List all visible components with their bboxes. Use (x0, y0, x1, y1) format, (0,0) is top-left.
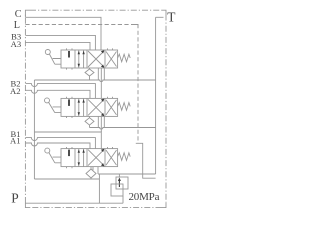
node T label (167, 10, 175, 25)
svg-text:A1: A1 (10, 136, 21, 146)
valve V3 cell1 bar (68, 51, 70, 58)
wire L drain to tank collector (136, 143, 156, 178)
wire valve1 to valve2 feed (100, 68, 102, 98)
wire A2 (hops over riser) (25, 90, 90, 98)
valve V1 cell3 crossed arrows (88, 150, 104, 166)
node C label (15, 9, 22, 20)
svg-text:A2: A2 (10, 86, 21, 96)
wire valve3 to check valve (90, 167, 92, 169)
valve V3 cell2 arrows (79, 50, 84, 68)
valve V1 cell dividers (75, 149, 105, 167)
valve V3 cell dividers (75, 50, 105, 68)
wire C line (25, 17, 101, 50)
wire step between tank bus levels (98, 174, 100, 179)
svg-text:L: L (14, 20, 20, 31)
wire check valve 3 bottom stub (90, 178, 92, 179)
value label 20MPa (129, 191, 160, 203)
wire B3 (25, 35, 95, 50)
valve V3 cell4 crossed lines (106, 52, 117, 67)
wire bottom tank bus to T (98, 173, 156, 175)
valve V1 cell1 bar (68, 150, 70, 157)
wire T stub (156, 16, 164, 18)
node B1 label (10, 129, 20, 139)
valve V2 cell2 arrows (79, 98, 84, 116)
enclosure boundary (dash-dot frame) (25, 10, 166, 207)
svg-text:A3: A3 (11, 39, 22, 49)
node P label (11, 190, 18, 205)
wire relief valve outlet to tank bus (118, 174, 120, 177)
wire valve2 to check valve (89, 116, 91, 127)
valve V2 port ticks (67, 97, 113, 118)
wire riser (left bypass down) (33, 80, 35, 179)
svg-text:T: T (167, 10, 175, 25)
spring V2 (118, 103, 131, 111)
enclosure corner pieces (25, 10, 166, 207)
node B3 label (11, 32, 21, 42)
valve V3 body (61, 50, 118, 68)
wire valve2 return bus to T (90, 128, 157, 130)
valve V1 port ticks (67, 147, 113, 168)
valve V3 cell3 crossed arrows (88, 51, 104, 67)
svg-text:P: P (11, 190, 18, 205)
relief valve RV body (116, 177, 128, 189)
svg-text:C: C (15, 9, 22, 20)
wire valve3 bottom ports to tank bus (93, 167, 98, 174)
check valve CV1 (85, 69, 94, 76)
valve V2 cell dividers (75, 98, 105, 116)
lever actuator V2 (45, 98, 50, 103)
lever actuator V3 (45, 50, 50, 55)
wire riser branch feeding valve3 (34, 132, 101, 149)
wire L drain line (dashed) (25, 25, 138, 144)
node A2 label (10, 86, 21, 96)
valve V2 body (61, 98, 118, 116)
wire T return vertical (155, 17, 157, 174)
valve V2 cell3 crossed arrows (88, 99, 104, 115)
valve V1 cell2 arrows (79, 149, 84, 167)
check valve CV2 (85, 118, 94, 125)
wire valve2 bottom ports to return (98, 116, 104, 132)
svg-text:20MPa: 20MPa (129, 191, 160, 203)
spring V1 (118, 153, 131, 161)
wire P drop from bus to P line (98, 179, 100, 203)
wire B2 (hops over riser) (25, 84, 95, 99)
wire valve1 bypass/return bus to T (34, 80, 156, 82)
wire A3 (25, 42, 90, 50)
wire valve1 to check valve (89, 68, 91, 80)
wire L corner piece (135, 25, 139, 29)
wire P supply line (25, 202, 123, 204)
valve V1 body (61, 149, 118, 167)
wire A1 (hops over riser) (25, 143, 90, 149)
spring V3 (118, 54, 131, 62)
wire relief valve inlet from P (122, 196, 124, 203)
wire bottom riser line (34, 178, 99, 180)
valve V1 cell4 crossed lines (106, 150, 117, 165)
check valve CV3 (86, 169, 96, 178)
relief valve pilot box (111, 184, 123, 196)
relief valve arrow (118, 180, 120, 187)
node A1 label (10, 136, 21, 146)
valve V2 cell1 bar (68, 99, 70, 106)
node B2 label (10, 78, 20, 88)
valve V2 cell4 crossed lines (106, 100, 117, 115)
node L label (14, 20, 20, 31)
valve V3 port ticks (67, 48, 113, 69)
lever actuator V1 (45, 148, 50, 153)
node A3 label (11, 39, 22, 49)
wire B1 (hops over riser) (25, 138, 95, 149)
wire valve1 bottom ports to return (98, 68, 104, 80)
